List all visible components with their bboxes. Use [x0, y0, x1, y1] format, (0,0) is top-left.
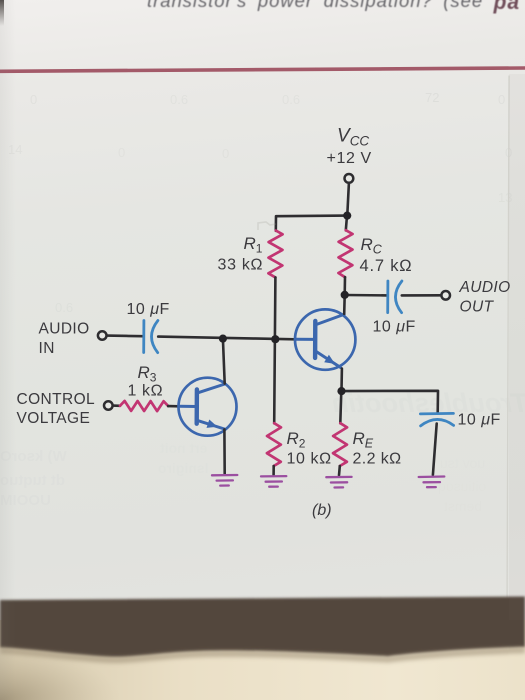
faint printing artifact above R1	[256, 220, 286, 236]
svg-text:R1: R1	[244, 234, 263, 256]
svg-text:AUDIO: AUDIO	[459, 279, 511, 296]
wire: RE drop	[340, 391, 341, 423]
ground Q2 emitter	[212, 475, 237, 486]
svg-text:4.7 kΩ: 4.7 kΩ	[360, 257, 413, 275]
terminal AUDIO OUT	[441, 291, 450, 300]
maroon horizontal rule	[0, 68, 525, 71]
terminal CONTROL VOLTAGE	[104, 401, 113, 410]
mirrored show-through headline "Troubleshooting"	[228, 388, 525, 419]
wire: audio-in cap to Q1 base	[158, 337, 295, 340]
node emitter junction	[337, 387, 345, 395]
resistor R1 zigzag	[268, 231, 282, 278]
svg-text:10 μF: 10 μF	[373, 319, 416, 336]
capacitor C-in 10uF (blue)	[142, 321, 145, 353]
svg-text:RE: RE	[353, 429, 374, 451]
wire: Q2 emitter down to ground	[223, 429, 226, 474]
svg-text:VCC: VCC	[337, 126, 369, 149]
svg-text:AUDIO: AUDIO	[39, 321, 90, 338]
darker strip right of page fold	[509, 74, 525, 620]
svg-text:1 kΩ: 1 kΩ	[128, 383, 164, 400]
transistor Q2 (control, blue)	[179, 378, 237, 436]
lower-right ghost text	[440, 455, 485, 471]
svg-text:RC: RC	[361, 235, 383, 257]
resistor RC zigzag	[338, 230, 352, 277]
svg-text:CONTROL: CONTROL	[17, 391, 96, 408]
terminal AUDIO IN	[98, 331, 107, 340]
svg-text:2.2 kΩ: 2.2 kΩ	[353, 451, 402, 468]
wire: Vcc stem	[347, 183, 349, 213]
svg-text:OUT: OUT	[460, 299, 495, 316]
wire: RC stem from Vcc node	[346, 216, 347, 231]
svg-text:R3: R3	[138, 363, 157, 385]
wire: RC bottom to collector node	[343, 277, 346, 295]
ground RE	[326, 477, 351, 488]
svg-text:VOLTAGE: VOLTAGE	[17, 410, 91, 427]
wire: Q2 collector riser to audio line	[223, 339, 225, 384]
svg-text:33 kΩ: 33 kΩ	[218, 257, 264, 274]
svg-text:10 kΩ: 10 kΩ	[287, 451, 332, 468]
darker bottom-left corner	[0, 0, 1, 1]
wire: R1 bottom through base node down to R2	[274, 277, 275, 423]
node Q2-collector/audio junction	[219, 335, 227, 343]
wire: emitter rail to bypass cap	[342, 391, 439, 413]
wire: collector node to audio-out cap	[345, 294, 388, 297]
wire: bypass cap to ground	[433, 424, 437, 475]
svg-text:10 μF: 10 μF	[458, 412, 501, 429]
cream surface below page	[0, 620, 525, 700]
control voltage wire + R3	[112, 404, 120, 407]
top cut-off caption text	[147, 0, 525, 13]
wire: cap to audio-out terminal	[402, 294, 441, 297]
faint ghost digits (page bleed-through)	[30, 92, 37, 107]
terminal Vcc +12V	[345, 174, 354, 183]
resistor RE zigzag	[333, 423, 347, 466]
svg-text:+12 V: +12 V	[327, 150, 372, 167]
resistor R3 zigzag	[120, 401, 168, 411]
soft shadow just under band	[0, 647, 525, 663]
svg-text:R2: R2	[287, 429, 306, 451]
faint page-edge vertical line right side	[507, 76, 509, 618]
lower-left ghost text block (mirrored)	[0, 448, 67, 465]
dark sliver top-left corner	[0, 0, 4, 26]
transistor Q1 (main, blue)	[295, 309, 355, 369]
svg-text:10 μF: 10 μF	[127, 301, 170, 318]
ground bypass cap	[419, 477, 445, 488]
wire: RE bottom	[338, 466, 341, 475]
node R1/R2 divider junction	[271, 335, 279, 343]
node collector junction	[341, 291, 349, 299]
wire: Q1 collector up	[343, 295, 346, 314]
dark table band (blurred edges like out-of-focus photo)	[0, 597, 525, 658]
capacitor C-bypass 10uF (blue, horizontal plates)	[420, 412, 453, 415]
capacitor C-out 10uF (blue)	[386, 281, 389, 313]
wire: audio-in segment terminal to cap	[106, 334, 142, 337]
wire: top rail	[276, 216, 347, 231]
svg-text:IN: IN	[39, 340, 55, 357]
node Vcc junction	[343, 212, 351, 220]
resistor R2 zigzag	[267, 423, 281, 466]
wire: Q1 emitter down	[340, 369, 343, 391]
svg-text:(b): (b)	[312, 502, 332, 519]
bottom dark band and cream surface	[0, 590, 525, 700]
wire: R2 bottom	[272, 466, 275, 475]
ground R2	[261, 476, 286, 487]
